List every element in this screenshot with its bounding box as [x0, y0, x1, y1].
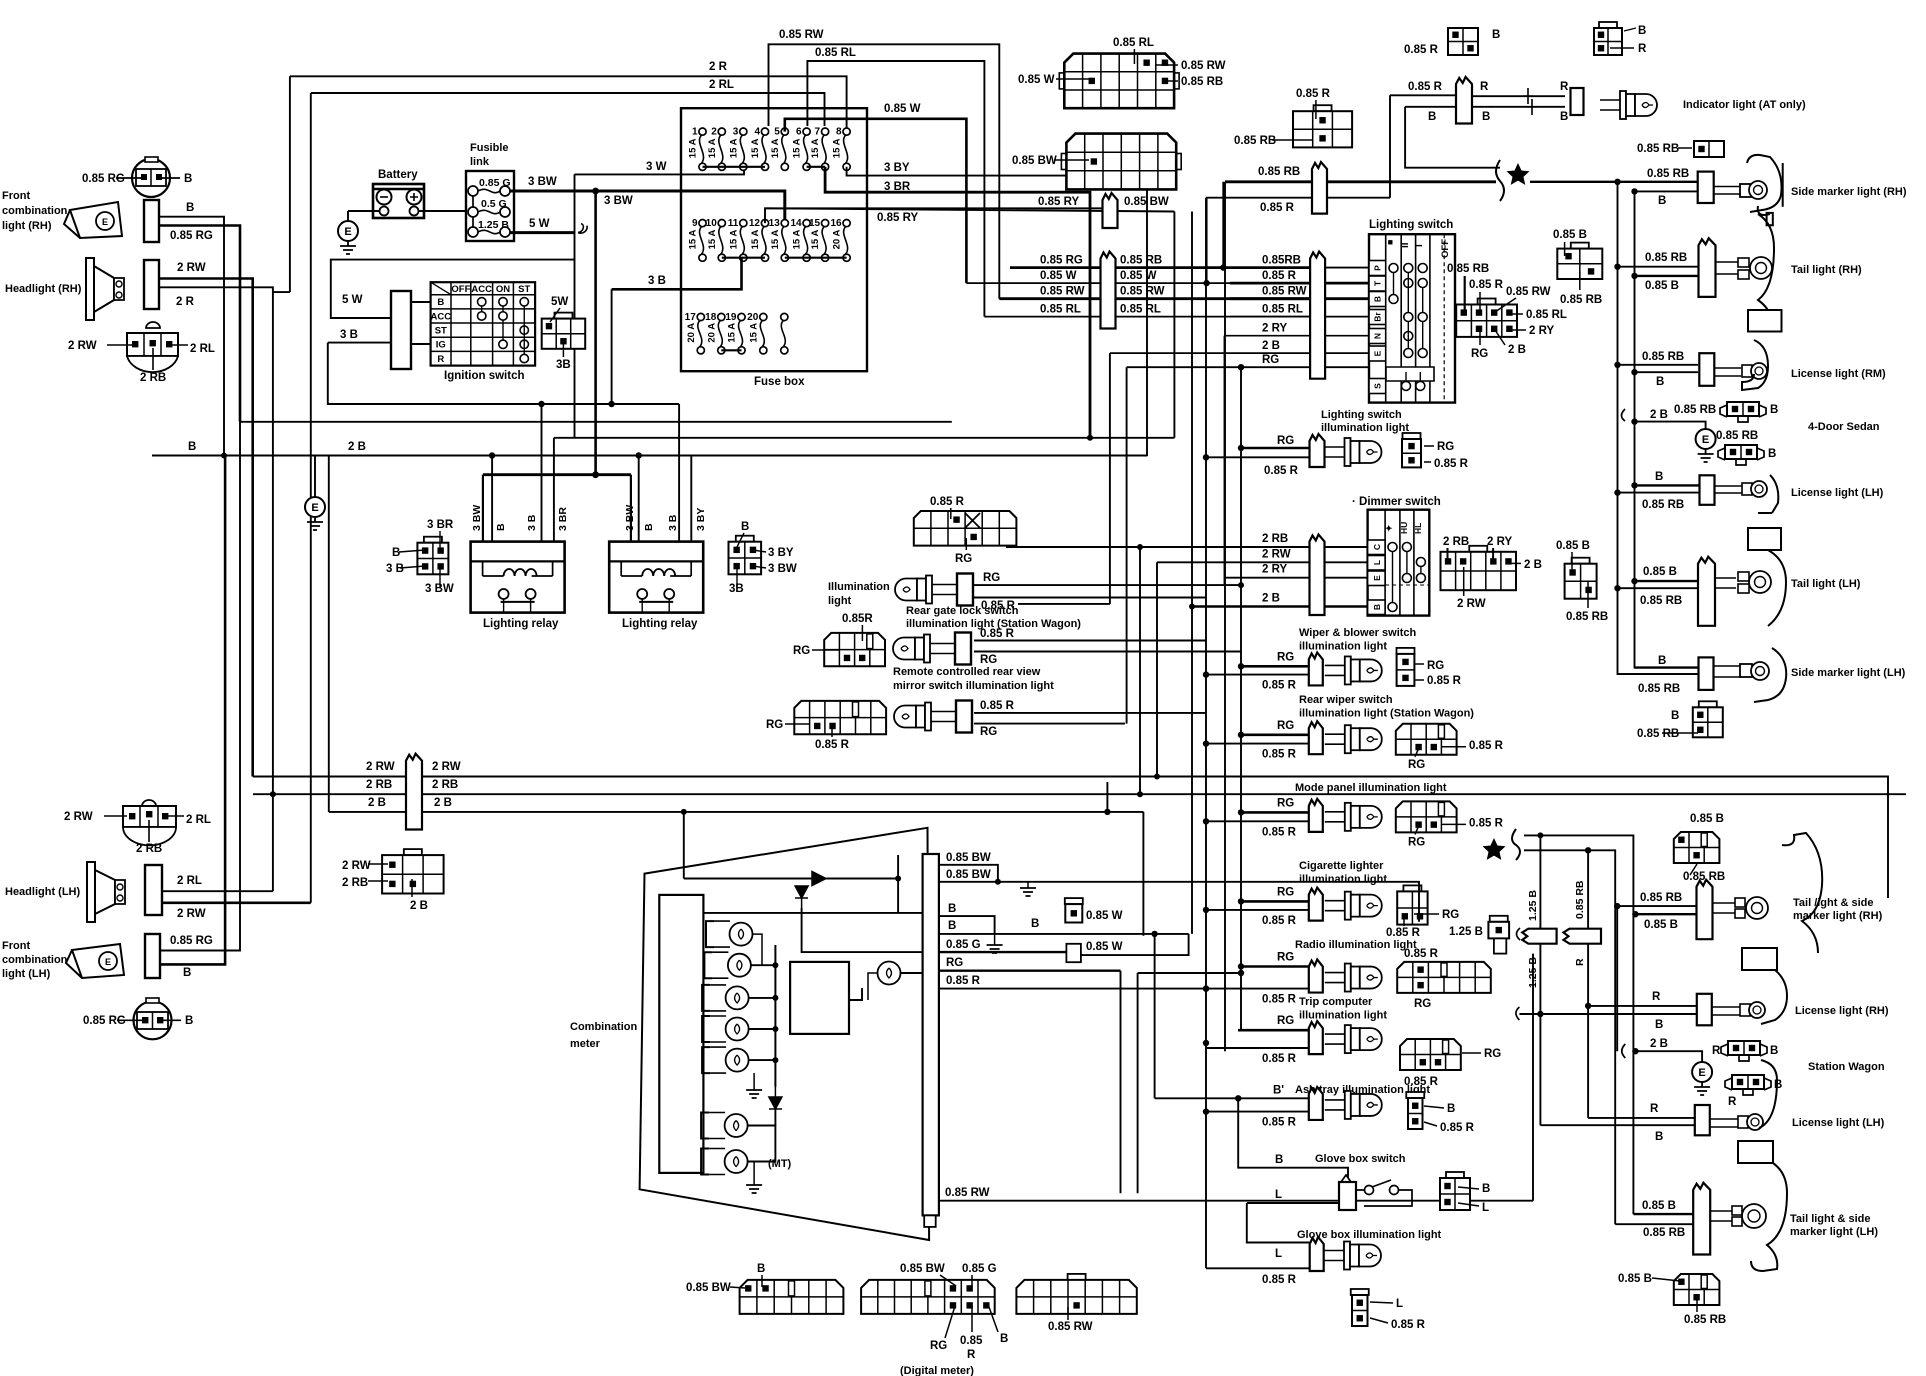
wire 2B wagon: [1635, 1051, 1702, 1062]
junction 0.85R rear wiper switch illumination light: [1203, 740, 1209, 746]
svg-text:RG: RG: [1277, 886, 1294, 898]
svg-text:Station Wagon: Station Wagon: [1808, 1061, 1885, 1073]
wire thin link (2R to long vertical): [273, 291, 290, 293]
svg-text:0.85 B: 0.85 B: [1556, 540, 1590, 552]
break mark (1.25B): [1517, 928, 1521, 940]
wire star lower to tail RH: [1524, 835, 1633, 914]
illumination light bulb (rear gate): [895, 579, 917, 601]
pointer bc8: [1067, 1307, 1069, 1320]
svg-text:0.85 RB: 0.85 RB: [1120, 255, 1162, 267]
wire 0.85RB drop: [1224, 182, 1226, 1051]
junction 2RW riser: [1154, 774, 1160, 780]
wire RG link horizontal: [1138, 972, 1241, 974]
connector 5W/3B: [554, 313, 572, 319]
connector 0.85RB (indicator right): [1694, 141, 1724, 157]
svg-text:0.85 BW: 0.85 BW: [946, 852, 991, 864]
svg-text:B: B: [1655, 471, 1663, 483]
svg-text:marker light (LH): marker light (LH): [1790, 1226, 1878, 1238]
svg-text:R: R: [967, 1349, 976, 1361]
inline connector (license RH): [1699, 353, 1714, 386]
svg-text:0.85 W: 0.85 W: [884, 103, 921, 115]
connector (cigarette lighter illumination light): [1403, 885, 1421, 891]
connector (rear wiper switch illumination light): [1396, 724, 1457, 755]
wire B cm drop: [1081, 934, 1189, 955]
svg-text:I: I: [1414, 244, 1425, 247]
pointer mode panel illumination light rg2: [1415, 827, 1418, 834]
fuse 10: [718, 220, 725, 227]
inline connector (tail RH btm): [1697, 880, 1713, 940]
pointer wiper & blower switch illumination light rg: [1415, 663, 1424, 665]
svg-text:RG: RG: [980, 654, 997, 666]
wire 2RW dimmer riser: [1156, 562, 1158, 776]
svg-text:2 RB: 2 RB: [1443, 536, 1469, 548]
front combination light (RH) lamp: [64, 202, 122, 238]
svg-text:0.85 R: 0.85 R: [1262, 1117, 1297, 1129]
connector glove box switch: [1446, 1172, 1464, 1178]
pointer 3BW relay2: [753, 566, 766, 568]
wire RG comb drop: [1120, 971, 1122, 1193]
wire 0.85R sub: [1206, 197, 1390, 199]
connector 0.85R/B top: [1448, 28, 1478, 55]
connector L/0.85R (below glove): [1351, 1289, 1369, 1295]
fuse box outline: [681, 108, 867, 371]
break mark (2B sedan): [1622, 409, 1626, 421]
wire B (front comb LH): [160, 456, 225, 965]
wire star lower to tail RH 2: [1524, 850, 1615, 1224]
combination meter inner panel: [659, 895, 703, 1173]
svg-text:Side marker light (RH): Side marker light (RH): [1791, 186, 1907, 198]
connector (headlight RH face): [107, 322, 188, 372]
svg-text:2 B: 2 B: [1508, 344, 1526, 356]
svg-text:Battery: Battery: [378, 169, 418, 181]
wire 0.85R (radio illumination light): [1206, 988, 1309, 990]
svg-text:RG: RG: [930, 1340, 947, 1352]
pointer h5: [1510, 329, 1526, 331]
pointer h3: [1495, 298, 1516, 312]
break marks (indicator wires): [1523, 88, 1537, 115]
junction lic RH B: [1631, 369, 1637, 375]
svg-text:2 R: 2 R: [176, 296, 195, 308]
svg-text:15 A: 15 A: [810, 138, 821, 158]
wire cm bulb link y997: [749, 997, 775, 999]
junction 0.85R ash tray illumination light: [1203, 1108, 1209, 1114]
svg-text:HL: HL: [1413, 523, 1423, 534]
junction tail RH btm B: [1632, 911, 1638, 917]
svg-text:3 BR: 3 BR: [884, 181, 911, 193]
combination meter bulb 6: [701, 1113, 709, 1139]
connector 0.85W lower: [1066, 944, 1081, 962]
junction cm 898: [895, 876, 901, 882]
ground (station wagon): [1692, 1062, 1712, 1082]
pointer bc5: [945, 1306, 955, 1338]
wire 3BW down to relays: [594, 191, 597, 475]
pointer 0.85RB 3x3: [1272, 139, 1313, 141]
tail light & side marker (LH) lamp: [1710, 1204, 1766, 1228]
break mark (lic RH btm): [1516, 1007, 1520, 1020]
svg-text:3 W: 3 W: [646, 161, 667, 173]
wire battery to fusible link: [419, 210, 471, 212]
svg-text:II: II: [1400, 242, 1411, 248]
svg-text:0.85 RW: 0.85 RW: [1262, 286, 1307, 298]
radio illumination light bulb: [1325, 973, 1345, 983]
wire 0.85R (rear gate): [974, 597, 1206, 599]
wire vertical RB right: [1618, 182, 1699, 674]
pointer bg1: [1370, 1302, 1393, 1303]
svg-text:R: R: [1650, 1103, 1659, 1115]
junction 2RB dimmer: [1137, 544, 1143, 550]
junction 2RB bundle v273: [270, 791, 276, 797]
svg-text:B: B: [1655, 1131, 1663, 1143]
svg-text:RG: RG: [766, 719, 783, 731]
pointer R tr: [1610, 47, 1634, 49]
svg-text:0.85 RB: 0.85 RB: [1716, 430, 1758, 442]
svg-text:0.85 RB: 0.85 RB: [1560, 294, 1602, 306]
svg-text:2 RW: 2 RW: [64, 811, 93, 823]
wire RG (rear gate): [974, 584, 1241, 586]
pointer h7: [1495, 330, 1505, 345]
headlight (RH) lamp: [86, 258, 124, 320]
svg-text:RG: RG: [983, 572, 1000, 584]
pointer d2: [1492, 548, 1494, 560]
wire 2B lsw stub left: [1018, 603, 1110, 605]
pointer 3BY relay2: [753, 550, 766, 552]
bus fuses 13-16: [785, 257, 847, 259]
wire RG (radio illumination light): [1241, 965, 1309, 968]
inline connector (lsw illum): [1310, 434, 1325, 467]
wire 0.85RB main: [1225, 180, 1496, 183]
svg-text:0.85 R: 0.85 R: [980, 628, 1015, 640]
wire cm top feed: [684, 878, 898, 880]
svg-text:0.85 R: 0.85 R: [1434, 458, 1469, 470]
svg-text:3 BY: 3 BY: [695, 508, 707, 531]
connector B/R top right: [1599, 22, 1617, 28]
pointer gb2: [1458, 1203, 1479, 1206]
svg-text:Tail light (RH): Tail light (RH): [1791, 264, 1862, 276]
pointer ash tray illumination light r2: [1424, 1122, 1437, 1126]
svg-text:illumination light: illumination light: [1321, 422, 1409, 434]
pointer bc7: [989, 1307, 998, 1332]
junction 0.85R mode panel illumination light: [1203, 818, 1209, 824]
svg-text:15 A: 15 A: [707, 230, 718, 250]
svg-text:0.85 RG: 0.85 RG: [83, 1015, 126, 1027]
lighting relay 1: [471, 542, 565, 613]
svg-text:Combination: Combination: [570, 1021, 637, 1033]
inline connector (bundle): [406, 754, 422, 830]
inline connector (license LH btm): [1695, 1105, 1710, 1135]
junction side marker RB: [1614, 179, 1620, 185]
junction lic RH btm R: [1585, 1003, 1591, 1009]
wire harness vertical x1090 (3BR): [1089, 192, 1091, 438]
bus fuses 10-12: [722, 257, 765, 259]
svg-text:IG: IG: [436, 340, 446, 351]
svg-text:E: E: [1698, 1067, 1705, 1079]
svg-text:light (LH): light (LH): [2, 968, 51, 980]
connector grid top-right 2: [1061, 154, 1066, 170]
svg-text:ST: ST: [518, 284, 530, 295]
pointer 0.85RL grid1: [1133, 49, 1135, 64]
pointer sm conn: [1662, 732, 1698, 734]
svg-text:Tail light & side: Tail light & side: [1790, 1213, 1870, 1225]
inline connector (trip computer illumination light): [1309, 1021, 1323, 1054]
junction star lower: [1585, 847, 1591, 853]
junction lic LH RB: [1614, 489, 1620, 495]
svg-text:0.85 RL: 0.85 RL: [1262, 304, 1303, 316]
wire 2RB dimmer riser: [1139, 547, 1141, 794]
wire hb bulb link: [901, 972, 923, 974]
svg-text:B: B: [1373, 296, 1383, 302]
bus fuses 1-4: [703, 166, 766, 168]
combination meter bulb 3: [702, 985, 710, 1011]
svg-text:0.85 R: 0.85 R: [1427, 675, 1462, 687]
wire 0.85BW 1: [939, 865, 998, 882]
wire vertical B right: [1635, 191, 1699, 667]
wire RG (trip computer illumination light): [1238, 1029, 1309, 1032]
connector dimmer harness: [1469, 546, 1487, 552]
svg-text:S: S: [1373, 383, 1383, 389]
wire vertical x574.5 (ign col): [574, 260, 576, 438]
svg-text:RG: RG: [1277, 720, 1294, 732]
svg-text:B: B: [437, 297, 444, 308]
svg-text:B: B: [1671, 710, 1679, 722]
svg-text:2 RB: 2 RB: [342, 877, 368, 889]
svg-text:B: B: [184, 173, 192, 185]
wire 0.85 RL to lighting switch: [1230, 316, 1369, 318]
wire 0.85R cm: [939, 988, 1206, 990]
svg-text:11: 11: [728, 218, 739, 229]
wire RG (mirror): [974, 651, 1241, 653]
svg-text:1.25 B: 1.25 B: [1527, 890, 1539, 921]
sedan conn2 wings: [1718, 448, 1764, 465]
front comb LH connector: [145, 934, 160, 978]
wire 2RY drop: [1224, 336, 1226, 586]
svg-text:0.85 RB: 0.85 RB: [1181, 76, 1223, 88]
pointer B tr: [1624, 28, 1636, 31]
pointer rear wiper switch illumination light r: [1442, 746, 1466, 748]
svg-text:2 RW: 2 RW: [1457, 598, 1486, 610]
svg-text:B: B: [1774, 1079, 1782, 1091]
svg-text:Headlight (LH): Headlight (LH): [5, 886, 80, 898]
svg-text:meter: meter: [570, 1038, 601, 1050]
svg-text:2 RL: 2 RL: [190, 343, 215, 355]
combination meter bulb 7: [701, 1149, 709, 1175]
wire RG long (y423): [240, 421, 952, 423]
svg-text:0.85 RG: 0.85 RG: [170, 230, 213, 242]
wire 0.85RW right link: [1532, 954, 1534, 1201]
wire 3BW relay2 drop: [630, 475, 632, 542]
svg-text:2 RB: 2 RB: [366, 779, 392, 791]
pointer 0.85RB dim: [1587, 582, 1589, 608]
inline connector (indicator): [1456, 77, 1472, 124]
wire lic RH B: [1635, 371, 1699, 373]
svg-text:0.85 B: 0.85 B: [1644, 919, 1678, 931]
svg-text:0.85 R: 0.85 R: [1440, 1122, 1475, 1134]
pointer bc4: [971, 1275, 973, 1286]
pointer 0.85RB conn: [1579, 272, 1581, 290]
svg-text:RG: RG: [1277, 651, 1294, 663]
wire 0.85RL top: [807, 61, 984, 317]
svg-text:B: B: [1770, 1045, 1778, 1057]
svg-text:RG: RG: [1277, 1015, 1294, 1027]
svg-text:0.85 W: 0.85 W: [1086, 941, 1123, 953]
wire 2RW bundle: [253, 777, 1888, 899]
connector sedan 2: [1725, 445, 1757, 459]
junction RG wiper & blower switch illumination light: [1238, 663, 1244, 669]
svg-text:OFF: OFF: [451, 284, 470, 295]
connector (headlight LH face): [104, 800, 184, 845]
svg-text:B: B: [1770, 404, 1778, 416]
svg-text:2 B: 2 B: [1650, 409, 1668, 421]
svg-text:R: R: [437, 354, 444, 365]
pointer bc6: [971, 1306, 973, 1332]
svg-text:15 A: 15 A: [792, 138, 803, 158]
svg-text:RG: RG: [1408, 759, 1425, 771]
svg-text:19: 19: [725, 312, 737, 323]
combination meter connector bar: [923, 854, 939, 1215]
inline connector (tail RH): [1699, 238, 1716, 297]
svg-text:5 W: 5 W: [529, 218, 550, 230]
svg-text:2 RY: 2 RY: [1487, 536, 1512, 548]
wire 0.85RY-BW: [765, 208, 1174, 211]
junction B cm: [1151, 931, 1157, 937]
svg-text:ACC: ACC: [431, 311, 452, 322]
svg-text:3 B: 3 B: [340, 329, 358, 341]
svg-text:Fuse box: Fuse box: [754, 376, 805, 388]
inline connector (radio illumination light): [1309, 960, 1323, 993]
svg-text:2 B: 2 B: [434, 797, 452, 809]
wire RG cm: [939, 970, 1121, 972]
svg-text:Ignition switch: Ignition switch: [444, 370, 525, 382]
wire 3B (ignition): [328, 342, 391, 344]
mirror switch illumination bulb: [893, 638, 915, 660]
wire tail RH B: [1635, 275, 1699, 277]
headlight LH connector: [145, 865, 162, 915]
inline connector (1.25B right): [1564, 929, 1602, 944]
svg-text:15 A: 15 A: [832, 138, 843, 158]
junction side marker B: [1631, 188, 1637, 194]
svg-text:0.85 RW: 0.85 RW: [779, 29, 824, 41]
junction RG lsw: [1238, 364, 1244, 370]
wire tail RH btm B: [1635, 913, 1696, 915]
lighting relay 2: [609, 542, 703, 613]
svg-text:N: N: [1373, 333, 1383, 339]
license light (RH btm) lamp: [1712, 1002, 1765, 1018]
svg-text:15 A: 15 A: [810, 230, 821, 250]
lighting switch illumination light bulb: [1325, 447, 1345, 457]
connector wagon 2: [1732, 1075, 1764, 1089]
svg-text:3 B: 3 B: [667, 514, 679, 531]
svg-text:RG: RG: [793, 645, 810, 657]
wire 2 RY to lighting switch: [1225, 335, 1370, 337]
svg-text:B: B: [1482, 111, 1490, 123]
svg-text:Headlight (RH): Headlight (RH): [5, 283, 82, 295]
wire 2RB bundle: [253, 793, 1906, 795]
svg-text:0.85 R: 0.85 R: [1404, 44, 1439, 56]
wire 0.85 RW bundle: [999, 297, 1310, 300]
wire lic LH B: [1635, 484, 1701, 486]
svg-text:0.85 R: 0.85 R: [1264, 465, 1299, 477]
wire cm lower bulbs: [748, 1126, 775, 1162]
fuse 8: [843, 128, 850, 135]
svg-text:3 B: 3 B: [648, 275, 666, 287]
svg-text:0.85 R: 0.85 R: [1262, 270, 1297, 282]
pointer btl: [1652, 1278, 1680, 1281]
wire 2B bundle riser: [328, 456, 330, 812]
front combination light (LH) lamp: [66, 944, 124, 978]
wire 3B fusebox: [612, 258, 742, 290]
wire lic LH btm R: [1588, 1117, 1695, 1119]
svg-text:Mode panel illumination light: Mode panel illumination light: [1295, 782, 1447, 794]
pointer bc2: [730, 1287, 745, 1288]
svg-text:0.85 R: 0.85 R: [1408, 81, 1443, 93]
pointer B relay2: [736, 533, 744, 549]
junction 0.85R bundle: [1203, 280, 1209, 286]
svg-text:15 A: 15 A: [792, 230, 803, 250]
pointer blg: [785, 723, 810, 725]
wire 0.85R indicator: [1390, 94, 1462, 96]
svg-text:0.85 B: 0.85 B: [1618, 1273, 1652, 1285]
svg-text:0.85: 0.85: [960, 1335, 983, 1347]
wire B (glove box): [1238, 1098, 1348, 1178]
junction cm bulb y1060: [772, 1057, 778, 1063]
svg-text:4-Door Sedan: 4-Door Sedan: [1808, 421, 1880, 433]
wire RB drop btm: [1616, 906, 1618, 1051]
inline connector (tail LH btm): [1693, 1183, 1710, 1255]
pointer 3B relay1: [400, 566, 425, 568]
svg-text:OFF: OFF: [1440, 239, 1451, 258]
svg-text:3B: 3B: [556, 359, 571, 371]
third illumination bulb: [894, 706, 916, 728]
wire RG link vertical: [1137, 973, 1139, 1193]
svg-text:Rear wiper switch: Rear wiper switch: [1299, 694, 1393, 706]
wire 5W (fusible): [510, 231, 574, 234]
connector bottom-left grid: [794, 701, 886, 734]
connector mirror grid: [824, 633, 885, 666]
connector (ash tray illumination light): [1406, 1092, 1424, 1098]
wire 0.85R up: [1206, 198, 1208, 283]
svg-text:B: B: [757, 1263, 765, 1275]
pointer btl2: [1696, 1297, 1698, 1312]
pointer gb1: [1458, 1187, 1479, 1189]
svg-text:marker light (RH): marker light (RH): [1793, 910, 1883, 922]
svg-text:B: B: [1447, 1103, 1455, 1115]
connector (front comb LH face): [117, 998, 181, 1039]
pointer 0.85R 3x3: [1315, 100, 1317, 119]
svg-text:2 B: 2 B: [1262, 593, 1280, 605]
wire B indicator2: [1405, 106, 1565, 108]
svg-text:0.85 RB: 0.85 RB: [1642, 499, 1684, 511]
wire 2RL (headlight LH): [162, 890, 273, 892]
svg-text:2 RY: 2 RY: [1529, 325, 1554, 337]
svg-text:Remote controlled rear view: Remote controlled rear view: [893, 666, 1041, 678]
svg-text:light: light: [828, 595, 852, 607]
wire 0.85R (trip computer illumination light): [1206, 1047, 1309, 1049]
connector 0.85W upper: [1065, 898, 1083, 904]
svg-text:15 A: 15 A: [770, 230, 781, 250]
svg-text:0.85 RB: 0.85 RB: [1645, 252, 1687, 264]
svg-text:20: 20: [747, 312, 759, 323]
svg-text:5 W: 5 W: [342, 294, 363, 306]
svg-text:3: 3: [733, 127, 739, 138]
connector sedan 1: [1727, 402, 1759, 416]
svg-text:0.85 BW: 0.85 BW: [900, 1263, 945, 1275]
svg-text:B: B: [1638, 25, 1646, 37]
combination meter bulb 2: [704, 952, 712, 978]
junction lic RH RB: [1614, 362, 1620, 368]
fuse 15: [822, 220, 829, 227]
svg-text:ON: ON: [496, 284, 510, 295]
svg-text:0.85RB: 0.85RB: [1262, 255, 1301, 267]
svg-text:2 B: 2 B: [410, 900, 428, 912]
